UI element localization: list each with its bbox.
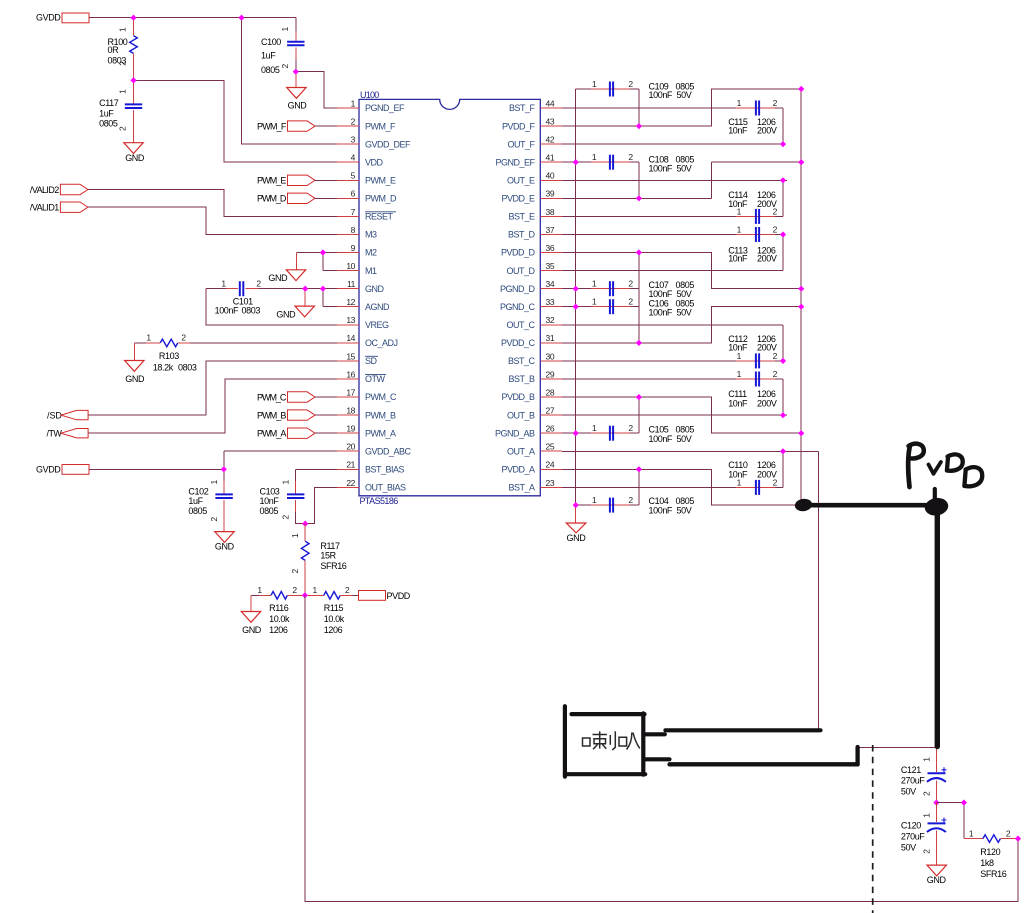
pin 12 AGND (left lead) [337, 297, 359, 307]
svg-text:1: 1 [281, 480, 291, 485]
junction riser/pin36 [636, 249, 642, 255]
junction pin34 on PGND bus [573, 286, 579, 292]
svg-text:OUT_B: OUT_B [507, 410, 535, 420]
svg-text:35: 35 [546, 261, 555, 271]
svg-text:1: 1 [351, 98, 356, 108]
svg-text:PWM_A: PWM_A [257, 429, 286, 439]
svg-text:25: 25 [546, 442, 555, 452]
pin 13 VREG (left lead) [337, 315, 359, 325]
port PWM_A input [257, 428, 315, 439]
wire: C112 pin2 riser [782, 325, 784, 361]
svg-text:GND: GND [567, 533, 587, 543]
pin name SD with overline [365, 356, 378, 366]
capacitor C121 270uF 50V (electrolytic) [901, 749, 947, 803]
resistor R117 15R SFR16 [290, 524, 347, 596]
pin 1 PGND_EF (left lead) [337, 98, 359, 108]
wire: SD pin15 to /SD flag [89, 361, 338, 415]
wire: C100 node to PGND_EF pin1 [296, 72, 337, 108]
wire: PGND_C pin33 stub [562, 306, 576, 308]
junction bias node [302, 521, 308, 527]
wire: OUT_D pin35 [562, 270, 783, 272]
svg-text:BST_BIAS: BST_BIAS [365, 465, 405, 475]
svg-text:30: 30 [546, 351, 555, 361]
svg-text:2: 2 [209, 517, 219, 522]
capacitor C109 100nF 0805 [576, 79, 695, 100]
svg-text:10.0k: 10.0k [269, 614, 290, 624]
junction bus pin33 level [798, 304, 804, 310]
pin name RESET with overline [365, 212, 396, 222]
svg-text:GVDD_DEF: GVDD_DEF [365, 139, 411, 149]
pin 2 PWM_F (left lead) [337, 117, 359, 127]
speaker label text (CJK drawn) [583, 731, 640, 750]
junction C105/pin28 [636, 394, 642, 400]
svg-text:PGND_C: PGND_C [500, 302, 536, 312]
junction C115/pin42 [780, 141, 786, 147]
svg-text:GVDD: GVDD [36, 13, 61, 23]
svg-text:PWM_C: PWM_C [365, 392, 397, 402]
junction C111/pin27 [780, 412, 786, 418]
pin 19 PWM_A (left lead) [337, 424, 359, 434]
wire: C101 pin1 to VREG pin13 [206, 289, 337, 325]
svg-text:SD: SD [365, 356, 378, 366]
svg-text:PWM_D: PWM_D [365, 194, 397, 204]
svg-text:1: 1 [118, 89, 128, 94]
svg-text:270uF: 270uF [901, 776, 925, 786]
svg-text:GND: GND [125, 374, 145, 384]
pin 24 PVDD_A (right lead) [540, 460, 562, 470]
svg-text:17: 17 [346, 387, 355, 397]
junction R117/R116/R115 [302, 592, 308, 598]
junction C112/pin30 [780, 358, 786, 364]
capacitor C117 plates [125, 104, 142, 108]
wire: C107/C106 shared riser to PVDD_D/PVDD_C rows [638, 253, 640, 343]
pin 40 OUT_E (right lead) [540, 171, 562, 181]
wire: PGND_EF pin41 stub [562, 161, 576, 163]
svg-text:PWM_F: PWM_F [257, 122, 287, 132]
svg-text:C102: C102 [188, 487, 208, 497]
wire: C100 lower node lead to GND [295, 72, 297, 88]
wire: PGND_AB pin26 stub [562, 432, 576, 434]
svg-text:38: 38 [546, 207, 555, 217]
svg-text:26: 26 [546, 424, 555, 434]
svg-text:1uF: 1uF [99, 109, 114, 119]
svg-text:R120: R120 [980, 847, 1000, 857]
svg-text:2: 2 [345, 585, 350, 595]
svg-text:2: 2 [256, 279, 261, 289]
wire: BST_B pin29 to C111 [562, 378, 736, 380]
svg-text:2: 2 [773, 369, 778, 379]
svg-text:10nF: 10nF [728, 126, 748, 136]
svg-text:44: 44 [546, 98, 555, 108]
svg-text:50V: 50V [901, 787, 916, 797]
capacitor C102 1uF 0805 [188, 469, 232, 531]
svg-text:10: 10 [346, 261, 355, 271]
junction pin41 on PGND bus [573, 159, 579, 165]
svg-text:100nF: 100nF [649, 307, 673, 317]
wire: M2 pin9 / M1 pin10 tie [297, 253, 337, 271]
wire: C108 riser from PVDD_E [710, 162, 712, 198]
svg-text:GND: GND [365, 284, 385, 294]
power port GVDD (lower left) [36, 465, 89, 475]
pin 14 OC_ADJ (left lead) [337, 333, 359, 343]
svg-text:100nF: 100nF [215, 305, 239, 315]
svg-text:/SD: /SD [47, 411, 62, 421]
svg-text:2: 2 [773, 98, 778, 108]
svg-text:1: 1 [257, 585, 262, 595]
junction C110/pin25 [780, 448, 786, 454]
capacitor C110 10nF 1206 [728, 460, 783, 495]
pin 38 BST_E (right lead) [540, 207, 562, 217]
svg-text:PVDD: PVDD [387, 591, 411, 601]
wire: GVDD net top [89, 17, 296, 19]
pin 15 SD (left lead) [337, 351, 359, 361]
pin 4 VDD (left lead) [337, 153, 359, 163]
svg-text:GVDD_ABC: GVDD_ABC [365, 446, 412, 456]
svg-text:M3: M3 [365, 230, 377, 240]
port PWM_E input [257, 175, 315, 186]
svg-text:9: 9 [351, 243, 356, 253]
svg-text:2: 2 [628, 495, 633, 505]
svg-text:40: 40 [546, 171, 555, 181]
junction PVDD bus top [798, 86, 804, 92]
svg-text:23: 23 [546, 478, 555, 488]
svg-text:39: 39 [546, 189, 555, 199]
wire: PWM_B to pin18 [315, 414, 337, 416]
pin 42 OUT_F (right lead) [540, 135, 562, 145]
svg-text:1: 1 [592, 79, 597, 89]
svg-text:0803: 0803 [242, 305, 261, 315]
port PWM_B input [257, 410, 315, 421]
pin 10 M1 (left lead) [337, 261, 359, 271]
svg-text:50V: 50V [677, 90, 692, 100]
wire: /VALID1 to M3 pin8 [88, 207, 337, 234]
pin 16 OTW (left lead) [337, 369, 359, 379]
junction bus pin34 level [798, 286, 804, 292]
svg-text:GND: GND [242, 625, 262, 635]
ground symbol below C120 [927, 865, 947, 885]
svg-text:PWM_C: PWM_C [257, 392, 287, 402]
svg-text:R103: R103 [159, 351, 179, 361]
svg-text:C103: C103 [260, 487, 280, 497]
svg-text:PWM_D: PWM_D [257, 194, 287, 204]
junction C100/GND/pin1 [293, 69, 299, 75]
svg-text:20: 20 [346, 442, 355, 452]
junction C104/pin24 [636, 466, 642, 472]
ground symbol below C104 [566, 523, 586, 543]
svg-text:1: 1 [146, 333, 151, 343]
ground symbol below pin11/12 [276, 306, 314, 319]
svg-text:BST_C: BST_C [508, 356, 536, 366]
pin 3 GVDD_DEF (left lead) [337, 135, 359, 145]
pin 41 PGND_EF (right lead) [540, 153, 562, 163]
wire: /VALID2 to RESET pin7 [88, 190, 337, 217]
hand-drawn junction blob left [795, 499, 812, 511]
svg-text:VDD: VDD [365, 157, 384, 167]
svg-text:0805: 0805 [261, 65, 280, 75]
pin 8 M3 (left lead) [337, 225, 359, 235]
ground symbol below C100 [287, 88, 308, 111]
svg-text:GND: GND [125, 153, 145, 163]
wire: C105 pin2 riser [638, 397, 640, 433]
svg-text:BST_A: BST_A [508, 483, 535, 493]
capacitor C102 plates [215, 494, 232, 498]
resistor R120 1k8 SFR16 [964, 829, 1018, 879]
svg-text:0R: 0R [108, 45, 120, 55]
wire: GND pin11 / AGND pin12 tie [258, 289, 337, 307]
svg-text:50V: 50V [677, 434, 692, 444]
svg-text:R117: R117 [320, 541, 340, 551]
svg-text:14: 14 [346, 333, 355, 343]
capacitor C103 10nF 0805 [260, 469, 338, 523]
svg-text:GND: GND [288, 101, 308, 111]
svg-text:41: 41 [546, 153, 555, 163]
junction R100/C117/VDD [130, 77, 136, 83]
wire: PVDD_C pin31 to bus [562, 307, 801, 343]
dashed boundary line [872, 745, 874, 913]
junction C108/pin39 [636, 195, 642, 201]
svg-text:1: 1 [737, 98, 742, 108]
svg-text:OUT_C: OUT_C [506, 320, 535, 330]
wire: BST_A pin23 to C110 [562, 486, 736, 488]
wire: GVDD to GVDD_ABC pin20 [89, 451, 337, 469]
wire: PGND_EF pin41 to C108 / bus link [711, 161, 801, 163]
wire: PVDD_F pin43 to PVDD bus [562, 89, 801, 126]
wire: OTW pin16 to /TW flag [89, 379, 338, 433]
capacitor C103 plates [287, 494, 304, 498]
svg-text:1: 1 [922, 757, 932, 762]
svg-text:/VALID1: /VALID1 [30, 203, 59, 213]
junction GVDD/R100 [130, 15, 136, 21]
wire: PGND bus vertical (left of decoupling caps) [575, 89, 577, 505]
svg-text:31: 31 [546, 333, 555, 343]
svg-text:1: 1 [592, 297, 597, 307]
resistor R100 0R 0803 [108, 18, 138, 81]
svg-text:0803: 0803 [178, 362, 197, 372]
wire: OUT_B pin27 [562, 414, 787, 416]
junction GVDD/C102/pin20 [221, 466, 227, 472]
wire: cap node to R120 [936, 803, 964, 839]
wire: PVDD_D pin36 to bus [562, 253, 801, 289]
svg-text:50V: 50V [677, 307, 692, 317]
svg-text:OUT_A: OUT_A [507, 446, 535, 456]
pin 21 BST_BIAS (left lead) [337, 460, 359, 470]
wire: BST_E pin38 to C114 [562, 215, 736, 217]
svg-text:PVDD_B: PVDD_B [501, 392, 535, 402]
svg-text:10nF: 10nF [728, 470, 748, 480]
svg-text:200V: 200V [757, 398, 777, 408]
svg-text:M1: M1 [365, 266, 377, 276]
svg-text:C117: C117 [99, 98, 119, 108]
pin 34 PGND_D (right lead) [540, 279, 562, 289]
svg-text:13: 13 [346, 315, 355, 325]
svg-text:22: 22 [346, 478, 355, 488]
wire: PVDD_B pin28 to bus [562, 397, 801, 433]
svg-text:0803: 0803 [108, 55, 127, 65]
capacitor C120 270uF 50V (electrolytic) [901, 803, 947, 866]
capacitor C117 1uF 0805 [99, 80, 142, 142]
pin 33 PGND_C (right lead) [540, 297, 562, 307]
svg-text:GVDD: GVDD [36, 465, 61, 475]
capacitor C104 100nF 0805 [576, 495, 695, 515]
wire: PVDD_A pin24 to PVDD node [562, 469, 797, 505]
svg-text:200V: 200V [757, 253, 777, 263]
svg-text:1: 1 [118, 27, 128, 32]
wire: PWM_F to pin2 [315, 125, 337, 127]
svg-text:GND: GND [927, 875, 947, 885]
svg-text:10nF: 10nF [728, 199, 748, 209]
wire: C111 pin2 riser [782, 379, 784, 415]
svg-text:AGND: AGND [365, 302, 390, 312]
svg-text:200V: 200V [757, 343, 777, 353]
svg-text:1: 1 [592, 495, 597, 505]
wire: C108 pin2 riser [638, 162, 640, 198]
svg-text:200V: 200V [757, 470, 777, 480]
svg-text:PGND_D: PGND_D [500, 284, 536, 294]
wire: lead GND pins node to GND symbol [304, 289, 306, 306]
junction C104 on PGND bus [573, 502, 579, 508]
junction C114/pin40 [780, 177, 786, 183]
port /SD output [47, 410, 88, 420]
svg-text:16: 16 [346, 369, 355, 379]
svg-text:1uF: 1uF [261, 51, 276, 61]
svg-text:4: 4 [351, 153, 356, 163]
svg-text:29: 29 [546, 369, 555, 379]
svg-text:7: 7 [351, 207, 356, 217]
wire: lead R103 pin1 to GND [133, 343, 135, 361]
pin 9 M2 (left lead) [337, 243, 359, 253]
wire: thick speaker wire - (to PVDD via caps) [670, 747, 858, 765]
port /TW output [47, 429, 89, 439]
junction pin11 GND drop [302, 286, 308, 292]
svg-text:PWM_A: PWM_A [365, 428, 396, 438]
svg-text:C100: C100 [261, 37, 281, 47]
svg-text:PTAS5186: PTAS5186 [360, 496, 399, 506]
svg-text:33: 33 [546, 297, 555, 307]
pin 27 OUT_B (right lead) [540, 406, 562, 416]
svg-text:2: 2 [628, 152, 633, 162]
svg-text:270uF: 270uF [901, 832, 925, 842]
wire: GVDD to GVDD_DEF pin3 [242, 18, 338, 144]
svg-text:100nF: 100nF [649, 434, 673, 444]
svg-text:BST_D: BST_D [508, 230, 536, 240]
svg-text:50V: 50V [901, 842, 916, 852]
svg-text:36: 36 [546, 243, 555, 253]
svg-text:1: 1 [737, 225, 742, 235]
svg-text:RESET: RESET [365, 212, 394, 222]
svg-text:10nF: 10nF [728, 343, 748, 353]
pin 7 RESET (left lead) [337, 207, 359, 217]
svg-text:6: 6 [351, 189, 356, 199]
svg-text:8: 8 [351, 225, 356, 235]
wire: OUT_C pin32 [562, 324, 783, 326]
wire: lead M2 node to GND [296, 253, 298, 270]
svg-text:PWM_E: PWM_E [257, 176, 286, 186]
pin 25 OUT_A (right lead) [540, 442, 562, 452]
svg-text:2: 2 [292, 585, 297, 595]
svg-text:15: 15 [346, 351, 355, 361]
svg-text:SFR16: SFR16 [980, 869, 1006, 879]
wire: lead R116 pin1 to GND [250, 595, 252, 611]
svg-text:1uF: 1uF [188, 496, 203, 506]
svg-text:0805: 0805 [260, 506, 279, 516]
svg-text:PVDD_C: PVDD_C [501, 338, 536, 348]
svg-text:10nF: 10nF [728, 398, 748, 408]
junction C121/C120/R120 node [933, 800, 939, 806]
svg-text:M2: M2 [365, 248, 377, 258]
pin 44 BST_F (right lead) [540, 98, 562, 108]
capacitor C100 1uF 0805 [261, 18, 305, 75]
svg-text:OUT_D: OUT_D [506, 266, 535, 276]
junction pin41 level on PVDD bus [798, 159, 804, 165]
svg-text:OC_ADJ: OC_ADJ [365, 338, 398, 348]
svg-text:SFR16: SFR16 [320, 561, 346, 571]
pin 35 OUT_D (right lead) [540, 261, 562, 271]
speaker terminals [645, 734, 669, 759]
port PWM_F input [257, 121, 315, 132]
junction pin11/pin12 [320, 286, 326, 292]
svg-text:1206: 1206 [269, 625, 288, 635]
wire: C115 pin2 riser [782, 108, 784, 144]
svg-text:100nF: 100nF [649, 163, 673, 173]
svg-text:2: 2 [351, 117, 356, 127]
wire: C110 pin2 riser [782, 451, 784, 487]
svg-text:1: 1 [313, 585, 318, 595]
svg-text:PVDD_A: PVDD_A [501, 465, 535, 475]
svg-text:VREG: VREG [365, 320, 389, 330]
svg-text:OTW: OTW [365, 374, 385, 384]
wire: lead PGND bus to GND [575, 505, 577, 523]
pin name OTW with overline [365, 374, 386, 384]
svg-text:2: 2 [181, 333, 186, 343]
wire: R103 to OC_ADJ pin14 [190, 342, 337, 344]
wire: PWM_C to pin17 [315, 396, 337, 398]
junction GVDD/pin3 [238, 15, 244, 21]
pin 28 PVDD_B (right lead) [540, 387, 562, 397]
wire: OUT_BIAS pin22 down to bias node [305, 487, 337, 523]
svg-text:10nF: 10nF [260, 496, 280, 506]
svg-text:BST_E: BST_E [508, 212, 535, 222]
svg-text:BST_F: BST_F [509, 103, 536, 113]
resistor R116 10.0k 1206 [251, 585, 303, 635]
pin 37 BST_D (right lead) [540, 225, 562, 235]
svg-text:1: 1 [922, 813, 932, 818]
pin 18 PWM_B (left lead) [337, 406, 359, 416]
pin 43 PVDD_F (right lead) [540, 117, 562, 127]
pin 31 PVDD_C (right lead) [540, 333, 562, 343]
pin 39 PVDD_E (right lead) [540, 189, 562, 199]
pin 26 PGND_AB (right lead) [540, 424, 562, 434]
wire: C104 pin2 riser [638, 469, 640, 505]
svg-text:11: 11 [347, 279, 356, 289]
svg-text:10nF: 10nF [728, 253, 748, 263]
op-amp/amplifier IC U100 PTAS5186 [359, 90, 540, 506]
svg-text:24: 24 [546, 460, 555, 470]
junction riser/pin31 [636, 340, 642, 346]
svg-text:R115: R115 [324, 603, 344, 613]
svg-text:BST_B: BST_B [508, 374, 535, 384]
svg-text:100nF: 100nF [649, 90, 673, 100]
svg-text:1: 1 [221, 279, 226, 289]
svg-text:/TW: /TW [47, 429, 63, 439]
svg-text:0805: 0805 [188, 506, 207, 516]
svg-text:OUT_BIAS: OUT_BIAS [365, 483, 406, 493]
svg-text:27: 27 [546, 406, 555, 416]
svg-text:OUT_F: OUT_F [507, 139, 535, 149]
svg-text:PWM_B: PWM_B [365, 410, 396, 420]
svg-text:R116: R116 [269, 603, 289, 613]
svg-text:1: 1 [737, 369, 742, 379]
power port GVDD (top left) [36, 13, 89, 23]
